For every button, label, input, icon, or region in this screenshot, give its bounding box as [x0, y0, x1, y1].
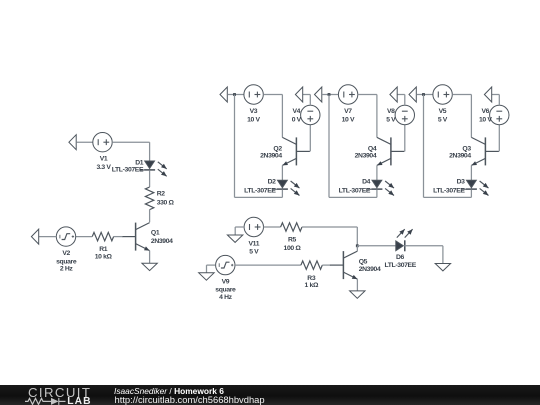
svg-text:2N3904: 2N3904	[260, 153, 282, 160]
svg-text:10 kΩ: 10 kΩ	[95, 254, 113, 261]
svg-text:V7: V7	[344, 108, 352, 115]
svg-text:R1: R1	[99, 246, 108, 253]
svg-text:LTL-307EE: LTL-307EE	[112, 167, 144, 174]
svg-text:V9: V9	[222, 278, 230, 285]
svg-text:Q5: Q5	[359, 259, 368, 266]
svg-text:V6: V6	[481, 108, 489, 115]
svg-text:4 Hz: 4 Hz	[219, 294, 233, 301]
svg-text:2N3904: 2N3904	[151, 238, 173, 245]
svg-text:LAB: LAB	[67, 395, 91, 405]
svg-text:V1: V1	[100, 156, 108, 163]
svg-text:0 V: 0 V	[292, 116, 302, 123]
svg-text:http://circuitlab.com/ch5668hb: http://circuitlab.com/ch5668hbvdhap	[115, 394, 265, 405]
svg-text:10 V: 10 V	[247, 116, 260, 123]
svg-text:D6: D6	[396, 254, 405, 261]
svg-text:2N3904: 2N3904	[359, 266, 381, 273]
svg-text:LTL-307EE: LTL-307EE	[244, 187, 276, 194]
svg-text:V8: V8	[387, 108, 395, 115]
svg-text:V2: V2	[62, 250, 70, 257]
svg-text:2N3904: 2N3904	[449, 153, 471, 160]
svg-text:100 Ω: 100 Ω	[284, 245, 302, 252]
svg-text:330 Ω: 330 Ω	[157, 200, 175, 207]
svg-text:D2: D2	[268, 178, 277, 185]
svg-text:R3: R3	[307, 275, 316, 282]
svg-text:R5: R5	[288, 236, 297, 243]
svg-text:Q4: Q4	[368, 146, 377, 153]
svg-text:3.3 V: 3.3 V	[96, 164, 111, 171]
svg-text:Q3: Q3	[462, 146, 471, 153]
svg-text:D3: D3	[457, 178, 466, 185]
svg-text:1 kΩ: 1 kΩ	[305, 282, 319, 289]
svg-text:V5: V5	[439, 108, 447, 115]
svg-text:5 V: 5 V	[386, 116, 396, 123]
svg-text:square: square	[56, 258, 77, 265]
svg-text:LTL-307EE: LTL-307EE	[433, 187, 465, 194]
svg-text:2 Hz: 2 Hz	[60, 265, 74, 272]
svg-text:10 V: 10 V	[342, 116, 355, 123]
svg-text:LTL-307EE: LTL-307EE	[339, 187, 371, 194]
svg-text:5 V: 5 V	[249, 249, 259, 256]
svg-text:square: square	[215, 286, 236, 293]
svg-text:D4: D4	[362, 178, 371, 185]
svg-text:10 V: 10 V	[479, 116, 492, 123]
svg-text:V4: V4	[292, 108, 300, 115]
svg-text:LTL-307EE: LTL-307EE	[384, 262, 416, 269]
svg-text:Q1: Q1	[151, 229, 160, 236]
svg-text:Q2: Q2	[273, 146, 282, 153]
svg-text:R2: R2	[157, 191, 166, 198]
svg-text:V11: V11	[248, 240, 259, 247]
svg-text:V3: V3	[250, 108, 258, 115]
svg-text:D1: D1	[135, 160, 144, 167]
svg-text:5 V: 5 V	[438, 116, 448, 123]
svg-text:2N3904: 2N3904	[355, 153, 377, 160]
